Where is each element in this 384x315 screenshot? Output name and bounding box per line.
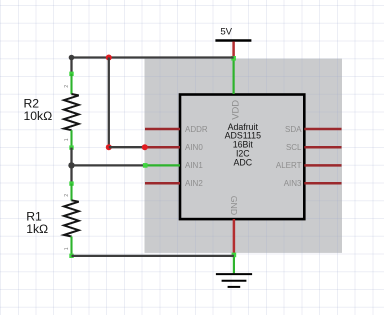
wire horizontal to AIN0 pin	[109, 146, 145, 148]
svg-text:1: 1	[64, 138, 70, 141]
pin AIN2 stub	[145, 182, 180, 185]
wire bottom rail R1 to ground	[72, 255, 234, 257]
svg-text:AIN3: AIN3	[284, 179, 302, 188]
wire R2 bottom to junction to R1 top	[70, 148, 72, 184]
svg-text:GND: GND	[229, 196, 239, 215]
pin GND stub (red)	[233, 219, 236, 255]
svg-text:ADC: ADC	[234, 157, 253, 167]
junction dot on top rail	[106, 55, 112, 61]
IC U1 body	[180, 95, 304, 220]
wire junction to AIN1 pin	[72, 164, 146, 166]
svg-text:AIN2: AIN2	[185, 179, 203, 188]
5V supply symbol	[215, 26, 251, 57]
wire bend dot	[106, 144, 112, 150]
connection square at AIN1 pin	[143, 163, 148, 168]
svg-text:1: 1	[64, 247, 70, 250]
svg-text:2: 2	[64, 194, 70, 197]
svg-text:SCL: SCL	[286, 143, 302, 152]
wire R2 top lead connector	[70, 58, 72, 75]
junction dot between R2 and R1	[68, 162, 74, 168]
wire 5V to VDD (green)	[233, 58, 235, 95]
wire top rail 5V to R2	[72, 56, 234, 58]
wire vertical to AIN0	[108, 58, 110, 148]
wire GND pin to ground symbol (green)	[233, 255, 235, 274]
IC U1 value text	[225, 122, 261, 168]
connection square at VDD wire	[231, 56, 236, 61]
svg-text:10kΩ: 10kΩ	[24, 109, 53, 123]
svg-text:AIN1: AIN1	[185, 161, 203, 170]
svg-text:SDA: SDA	[285, 125, 302, 134]
pin SDA stub	[304, 128, 341, 131]
svg-text:ADDR: ADDR	[185, 125, 208, 134]
svg-text:VDD: VDD	[230, 100, 241, 120]
svg-text:1kΩ: 1kΩ	[26, 222, 48, 236]
pin AIN3 stub	[304, 182, 341, 185]
svg-text:2: 2	[64, 85, 70, 88]
pin ALERT stub	[304, 164, 341, 167]
pin AIN1 stub (connected, green)	[145, 164, 180, 166]
connection square at GND wire	[232, 253, 237, 258]
pin ADDR stub	[145, 128, 180, 131]
resistor R2	[64, 72, 79, 150]
wire endpoint dot at AIN0 pin	[142, 144, 148, 150]
pin SCL stub	[304, 146, 341, 149]
wire endpoint dot at R2 top	[69, 55, 75, 61]
resistor R1	[64, 181, 79, 258]
IC U1 part background highlight	[145, 59, 343, 253]
ground symbol	[216, 274, 252, 287]
pin AIN0 stub	[145, 146, 180, 149]
svg-text:AIN0: AIN0	[185, 143, 203, 152]
svg-text:5V: 5V	[220, 26, 232, 37]
svg-text:ALERT: ALERT	[276, 161, 302, 170]
